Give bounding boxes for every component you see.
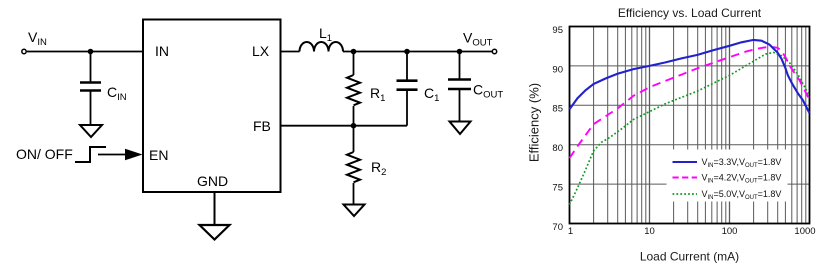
- wire LX to L1: [281, 51, 300, 53]
- svg-text:95: 95: [552, 25, 563, 36]
- pulse symbol ON/OFF: [75, 147, 106, 162]
- op IC U1 box: [143, 20, 281, 193]
- wire COUT top: [459, 52, 461, 79]
- legend swatch magenta: [673, 177, 698, 179]
- resistor R1: [347, 75, 360, 105]
- curve VIN=4.2V magenta dashed: [570, 47, 810, 159]
- chart plot border: [570, 27, 810, 224]
- terminal VOUT: [492, 49, 496, 53]
- junction node C1 top: [404, 49, 410, 55]
- svg-text:Efficiency vs. Load Current: Efficiency vs. Load Current: [618, 6, 762, 20]
- svg-text:75: 75: [552, 183, 563, 194]
- ground GND: [200, 225, 230, 240]
- ground COUT: [450, 122, 471, 135]
- svg-text:90: 90: [552, 64, 563, 75]
- legend swatch green: [673, 193, 698, 195]
- curve VIN=3.3V blue solid: [570, 40, 810, 113]
- wire C1 top: [406, 52, 408, 80]
- capacitor C1: [397, 81, 418, 90]
- svg-text:Efficiency (%): Efficiency (%): [527, 83, 542, 162]
- wire L1 to VOUT: [343, 51, 492, 53]
- wire R1 bottom: [353, 106, 355, 126]
- capacitor CIN: [80, 83, 101, 91]
- svg-text:70: 70: [552, 222, 563, 233]
- svg-text:Load Current (mA): Load Current (mA): [640, 250, 739, 264]
- wire COUT bottom: [459, 90, 461, 122]
- junction node FB/R2: [351, 123, 357, 129]
- chart y tick labels: [552, 25, 563, 233]
- svg-text:EN: EN: [149, 147, 168, 163]
- svg-text:IN: IN: [155, 43, 169, 59]
- wire R2 bottom: [353, 183, 355, 205]
- wire R1 top: [353, 52, 355, 76]
- ground R2: [344, 205, 365, 217]
- terminal VIN: [22, 49, 26, 53]
- svg-text:1: 1: [568, 226, 573, 237]
- wire CIN top: [90, 52, 92, 82]
- curve VIN=5.0V green dotted: [570, 53, 810, 205]
- wire FB net: [281, 125, 408, 127]
- chart vertical gridlines: [594, 27, 806, 224]
- svg-text:LX: LX: [252, 43, 270, 59]
- legend swatch blue: [673, 161, 698, 163]
- svg-text:85: 85: [552, 104, 563, 115]
- svg-text:1000: 1000: [794, 226, 815, 237]
- inductor L1: [300, 42, 344, 52]
- svg-text:FB: FB: [253, 118, 271, 134]
- wire R2 top: [353, 126, 355, 152]
- svg-text:10: 10: [644, 226, 655, 237]
- junction node COUT top: [457, 49, 463, 55]
- svg-text:ON/ OFF: ON/ OFF: [16, 146, 73, 162]
- wire VIN to IN pin: [27, 51, 143, 53]
- wire CIN bottom: [90, 92, 92, 126]
- wire GND pin: [214, 192, 216, 225]
- wire EN arrow: [98, 154, 127, 156]
- resistor R2: [347, 152, 360, 182]
- chart x tick labels: [568, 226, 816, 237]
- junction node VIN/CIN: [88, 49, 94, 55]
- junction node R1 top: [351, 49, 357, 55]
- svg-text:80: 80: [552, 143, 563, 154]
- ground CIN: [80, 125, 102, 137]
- svg-text:GND: GND: [197, 173, 228, 189]
- arrowhead EN: [125, 149, 143, 161]
- svg-text:100: 100: [722, 226, 738, 237]
- wire C1 bottom: [406, 91, 408, 126]
- capacitor COUT: [448, 80, 471, 90]
- chart horizontal gridlines: [570, 66, 810, 184]
